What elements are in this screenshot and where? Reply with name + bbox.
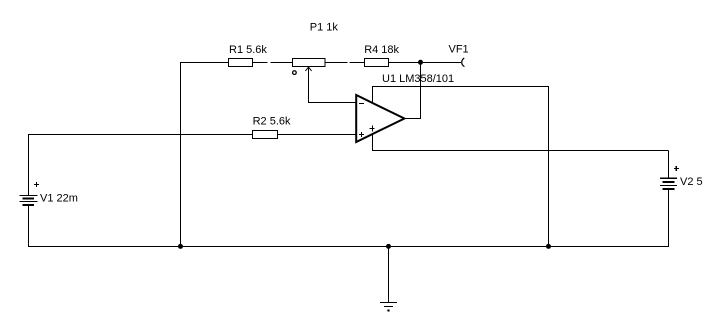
svg-text:VF1: VF1 <box>449 44 469 56</box>
svg-text:R2 5.6k: R2 5.6k <box>253 116 291 128</box>
svg-text:P1 1k: P1 1k <box>310 22 339 34</box>
svg-text:U1 LM358/101: U1 LM358/101 <box>382 73 454 85</box>
svg-text:R4 18k: R4 18k <box>364 44 399 56</box>
svg-text:V1 22m: V1 22m <box>40 193 78 205</box>
svg-text:R1 5.6k: R1 5.6k <box>229 44 267 56</box>
svg-text:V2 5: V2 5 <box>680 176 703 188</box>
